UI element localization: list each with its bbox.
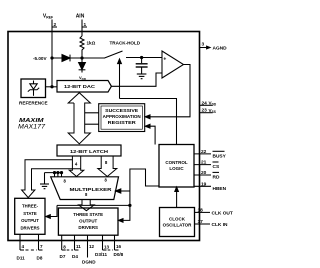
node CLK OUT pin 18 xyxy=(195,207,233,216)
svg-text:16: 16 xyxy=(116,244,122,249)
three-state output drivers (left) xyxy=(15,198,45,234)
svg-text:23: 23 xyxy=(202,108,208,114)
svg-text:OSCILLATOR: OSCILLATOR xyxy=(163,223,193,228)
svg-text:D0/8: D0/8 xyxy=(114,252,124,257)
pin 4 stub xyxy=(20,234,25,250)
svg-text:1: 1 xyxy=(84,22,87,28)
node BUSY pin 22 xyxy=(194,149,227,160)
svg-text:CS: CS xyxy=(213,164,220,170)
dashed 13..16 xyxy=(108,249,113,251)
dashed 8..11 xyxy=(67,249,73,251)
pin 16 stub xyxy=(115,235,122,250)
svg-text:12-BIT LATCH: 12-BIT LATCH xyxy=(70,149,108,154)
svg-text:12: 12 xyxy=(89,244,95,249)
svg-text:13: 13 xyxy=(104,245,110,250)
svg-text:CONTROL: CONTROL xyxy=(165,160,187,165)
svg-text:+: + xyxy=(163,57,166,63)
DAC U2 12-bit xyxy=(57,81,111,93)
diode D2 (clamp to VDD) xyxy=(79,58,87,81)
pin 8 stub xyxy=(62,235,66,250)
svg-text:APPROXIMATION: APPROXIMATION xyxy=(103,114,141,119)
resistor 1k xyxy=(80,36,96,58)
svg-text:7: 7 xyxy=(40,244,43,249)
node HBEN pin 19 xyxy=(194,181,227,192)
wire comparator output to SAR xyxy=(149,65,191,117)
capacitor C-hold xyxy=(136,56,148,73)
svg-text:D3/11: D3/11 xyxy=(95,252,107,257)
svg-text:MULTIPLEXER: MULTIPLEXER xyxy=(70,187,113,192)
op-amp comparator xyxy=(162,51,184,78)
pin 7 stub xyxy=(39,234,44,250)
svg-text:THREE-: THREE- xyxy=(22,203,39,208)
svg-text:THREE STATE: THREE STATE xyxy=(73,212,103,217)
svg-text:18: 18 xyxy=(198,207,204,213)
node CS pin 21 xyxy=(194,160,220,171)
svg-text:DRIVERS: DRIVERS xyxy=(20,226,39,231)
node CLK IN pin 17 xyxy=(195,219,229,228)
wire SAR to bus (lower) xyxy=(85,123,99,125)
dashed 4..7 xyxy=(26,249,38,251)
svg-text:LOGIC: LOGIC xyxy=(169,166,184,171)
svg-text:12-BIT DAC: 12-BIT DAC xyxy=(64,84,96,89)
svg-text:D11: D11 xyxy=(17,256,26,261)
svg-text:20: 20 xyxy=(201,170,207,176)
bus DAC-latch double-headed arrow xyxy=(68,93,90,144)
latch 12-bit box xyxy=(57,145,121,156)
svg-text:CLK OUT: CLK OUT xyxy=(212,210,233,216)
three-state output drivers (center) xyxy=(58,208,118,235)
wire -5.00V clamp xyxy=(33,56,83,61)
svg-text:CLOCK: CLOCK xyxy=(169,217,186,222)
svg-text:24: 24 xyxy=(202,100,208,106)
arrowhead into mux select xyxy=(116,189,130,193)
svg-text:22: 22 xyxy=(201,149,207,155)
clock oscillator box xyxy=(160,208,195,237)
svg-text:AIN: AIN xyxy=(76,14,85,20)
node AIN pin 1 xyxy=(76,14,87,37)
arrowhead into center driver xyxy=(119,219,124,223)
multiplexer MUX xyxy=(51,177,119,200)
svg-text:CLK IN: CLK IN xyxy=(212,222,229,228)
svg-text:4: 4 xyxy=(22,244,25,249)
svg-text:3: 3 xyxy=(202,42,205,48)
chip outline xyxy=(8,32,200,241)
node VSS pin 23 xyxy=(200,108,216,114)
svg-text:AGND: AGND xyxy=(213,46,228,52)
svg-text:STATE: STATE xyxy=(23,211,37,216)
wire reference to DAC xyxy=(46,86,58,88)
svg-text:REFERENCE: REFERENCE xyxy=(19,101,48,106)
svg-text:OUTPUT: OUTPUT xyxy=(21,218,39,223)
pin 11 stub xyxy=(75,235,82,250)
svg-text:HBEN: HBEN xyxy=(213,186,227,192)
bus latch to left driver xyxy=(22,160,81,198)
node RD pin 20 xyxy=(194,170,220,181)
wire track-hold control xyxy=(118,59,122,99)
reference U1 box xyxy=(19,79,48,106)
svg-text:19: 19 xyxy=(201,181,207,187)
ground (mux inputs) xyxy=(40,184,49,189)
arrowhead into SAR (from comparator) xyxy=(145,115,150,119)
svg-text:17: 17 xyxy=(198,219,204,225)
svg-text:-5.00V: -5.00V xyxy=(33,56,47,61)
grounded mux inputs xyxy=(45,172,63,184)
bus latch to mux (4) xyxy=(69,156,84,177)
arrowhead into left driver xyxy=(46,215,51,219)
node AGND pin 3 xyxy=(200,42,228,52)
svg-text:D4: D4 xyxy=(72,254,78,259)
svg-text:DGND: DGND xyxy=(82,260,96,265)
svg-text:REGISTER: REGISTER xyxy=(108,120,137,125)
zener diode (inside reference) xyxy=(28,81,39,96)
svg-text:D7: D7 xyxy=(60,254,66,259)
bus mux to output drivers xyxy=(79,200,95,211)
svg-text:DRIVERS: DRIVERS xyxy=(78,225,98,230)
svg-text:TRACK-HOLD: TRACK-HOLD xyxy=(110,41,141,46)
svg-text:BUSY: BUSY xyxy=(213,153,227,159)
node VREF pin 2 xyxy=(43,14,57,87)
svg-text:OUTPUT: OUTPUT xyxy=(79,219,97,224)
svg-text:RD: RD xyxy=(213,175,220,181)
ground (hold cap) xyxy=(137,74,147,79)
bus latch to mux (8) xyxy=(98,156,117,177)
control logic box xyxy=(159,145,194,188)
svg-text:11: 11 xyxy=(76,244,81,249)
wire control enable net xyxy=(49,169,160,220)
diode D1 (clamp to node) xyxy=(62,55,70,62)
svg-text:2: 2 xyxy=(54,22,57,28)
wire T/H control from control logic xyxy=(120,99,177,145)
wire SAR to bus (upper) xyxy=(85,112,99,114)
SAR register box (double border) xyxy=(99,104,145,132)
wire clock to control xyxy=(175,187,179,208)
track-hold switch xyxy=(82,41,162,58)
svg-text:D8: D8 xyxy=(37,256,43,261)
svg-text:MAX177: MAX177 xyxy=(18,124,46,130)
arrowhead into SAR (from control) xyxy=(145,124,150,128)
svg-text:MAXIM: MAXIM xyxy=(19,118,44,124)
svg-text:1kΩ: 1kΩ xyxy=(87,41,96,46)
pin 13 stub xyxy=(103,235,110,250)
wire DAC output to comparator xyxy=(111,73,162,86)
svg-text:21: 21 xyxy=(201,160,207,166)
svg-text:8: 8 xyxy=(63,245,66,250)
wire control logic to SAR xyxy=(149,126,156,144)
pin 12 stub (DGND) xyxy=(88,235,95,257)
node VDD pin 24 xyxy=(200,100,217,106)
svg-text:SUCCESSIVE: SUCCESSIVE xyxy=(105,108,138,113)
